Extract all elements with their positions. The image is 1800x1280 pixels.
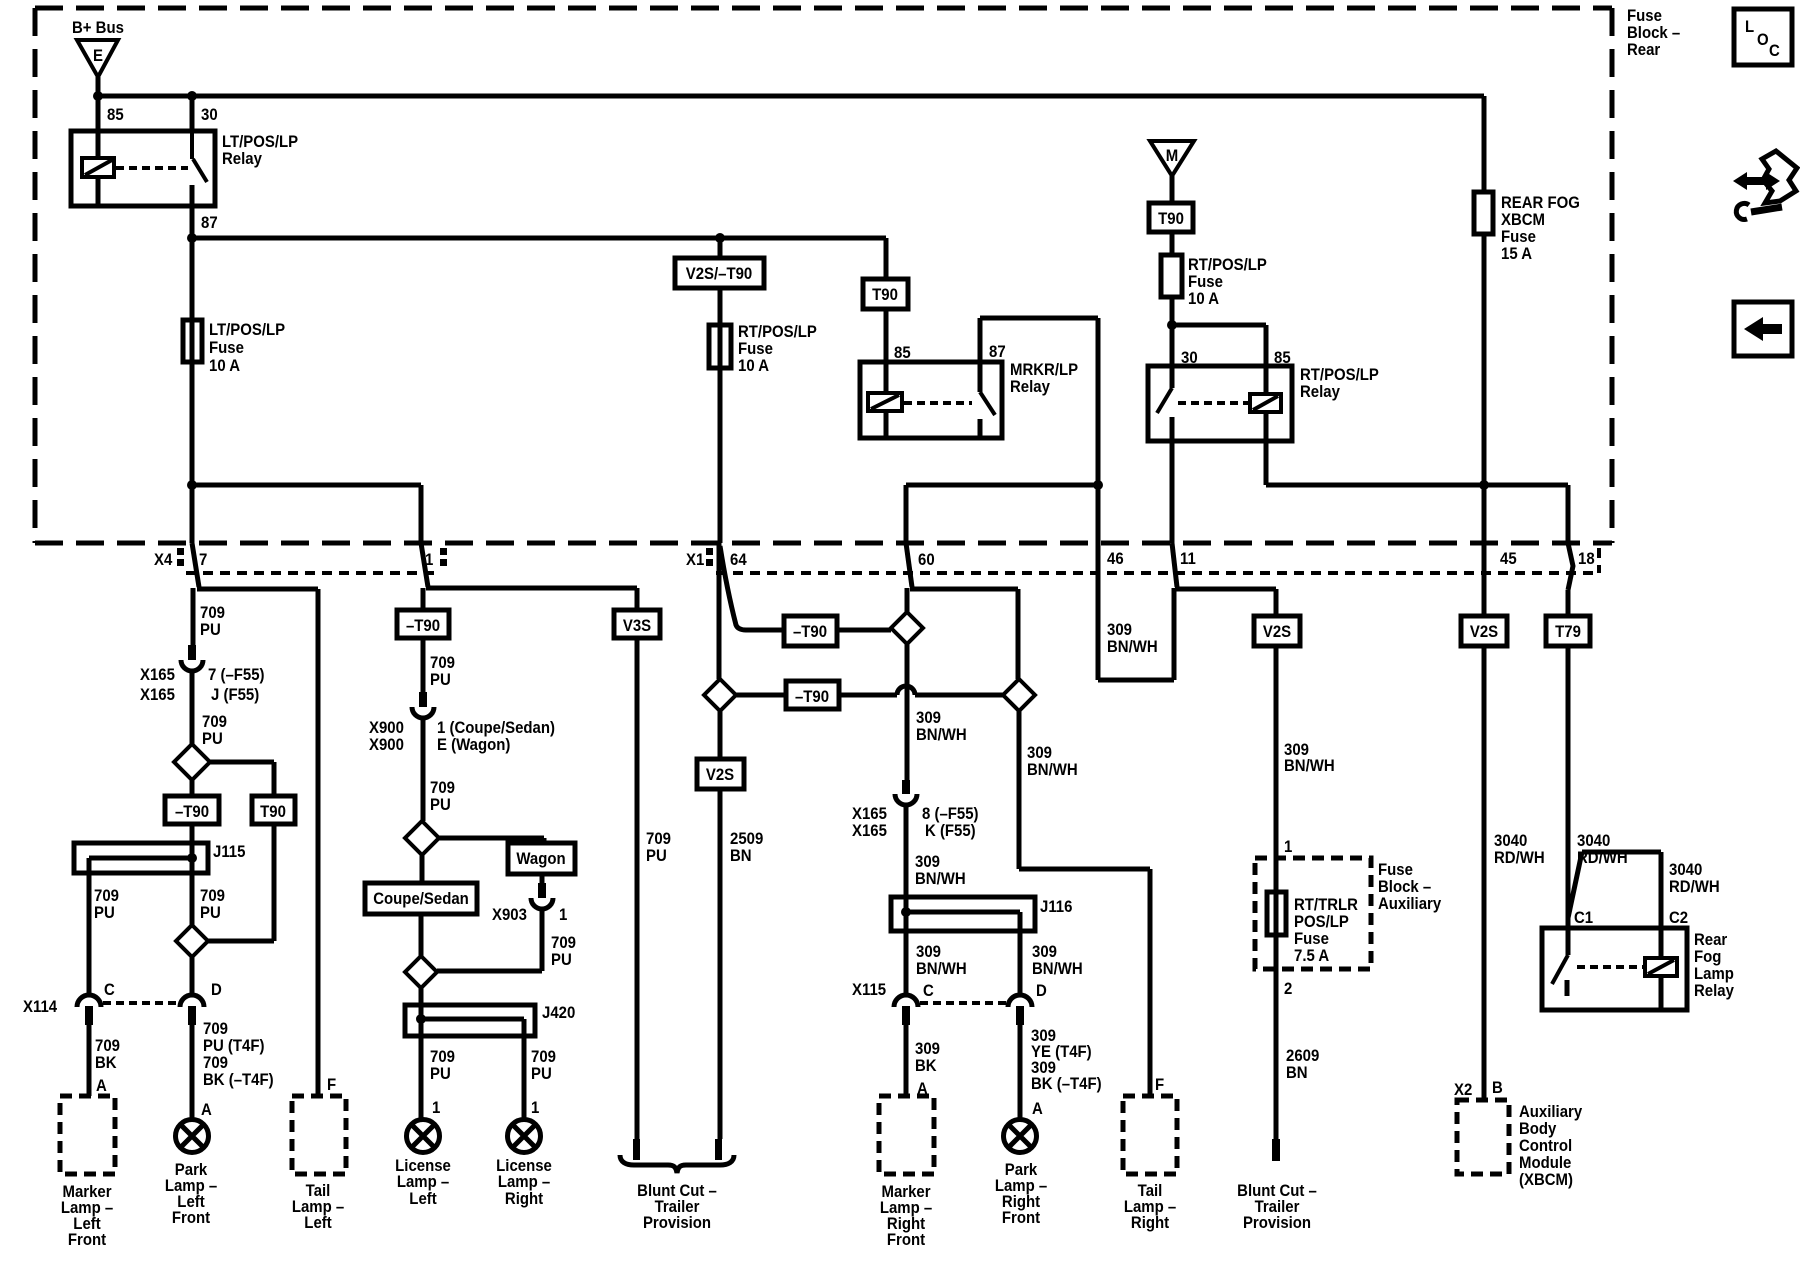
svg-text:30: 30 [201, 106, 218, 124]
svg-text:K (F55): K (F55) [925, 822, 976, 840]
svg-text:BK (–T4F): BK (–T4F) [1031, 1075, 1102, 1093]
svg-text:E (Wagon): E (Wagon) [437, 736, 510, 754]
svg-text:V2S/–T90: V2S/–T90 [686, 265, 753, 283]
svg-text:XBCM: XBCM [1501, 211, 1545, 229]
svg-text:PU: PU [94, 904, 115, 922]
svg-text:309: 309 [916, 943, 941, 961]
svg-text:Front: Front [68, 1231, 107, 1249]
svg-text:C: C [1769, 42, 1780, 60]
svg-text:309: 309 [915, 1040, 940, 1058]
svg-text:–T90: –T90 [406, 617, 440, 635]
svg-text:X2: X2 [1454, 1081, 1472, 1099]
svg-text:709: 709 [200, 604, 225, 622]
svg-text:Auxiliary: Auxiliary [1519, 1103, 1582, 1121]
svg-text:RT/POS/LP: RT/POS/LP [1300, 366, 1379, 384]
svg-text:–T90: –T90 [795, 688, 829, 706]
svg-text:B: B [1492, 1079, 1503, 1097]
svg-text:V2S: V2S [1470, 623, 1499, 641]
svg-text:Relay: Relay [1694, 982, 1734, 1000]
svg-text:Block –: Block – [1378, 878, 1431, 896]
svg-text:RT/POS/LP: RT/POS/LP [738, 323, 817, 341]
svg-text:X1: X1 [686, 551, 704, 569]
svg-text:X115: X115 [852, 981, 886, 999]
svg-text:T90: T90 [872, 286, 898, 304]
svg-text:85: 85 [107, 106, 124, 124]
svg-text:Front: Front [1002, 1209, 1041, 1227]
svg-text:POS/LP: POS/LP [1294, 913, 1349, 931]
svg-text:T90: T90 [260, 803, 286, 821]
svg-text:C: C [104, 981, 115, 999]
svg-text:10 A: 10 A [1188, 290, 1219, 308]
svg-text:7 (–F55): 7 (–F55) [208, 666, 264, 684]
svg-text:X165: X165 [852, 822, 887, 840]
svg-text:BK: BK [95, 1054, 117, 1072]
svg-text:BN/WH: BN/WH [916, 726, 967, 744]
svg-text:Front: Front [887, 1231, 926, 1249]
svg-text:J (F55): J (F55) [211, 686, 259, 704]
svg-text:709: 709 [531, 1048, 556, 1066]
svg-text:A: A [917, 1080, 928, 1098]
svg-text:Module: Module [1519, 1154, 1571, 1172]
svg-text:O: O [1757, 31, 1769, 49]
svg-text:A: A [201, 1101, 212, 1119]
svg-text:X4: X4 [154, 551, 172, 569]
svg-text:10 A: 10 A [738, 357, 769, 375]
svg-text:J116: J116 [1040, 898, 1073, 916]
svg-text:X165: X165 [140, 666, 175, 684]
svg-text:X903: X903 [492, 906, 527, 924]
svg-text:PU: PU [202, 730, 223, 748]
svg-text:Body: Body [1519, 1120, 1556, 1138]
svg-text:Provision: Provision [1243, 1214, 1311, 1232]
svg-text:Rear: Rear [1694, 931, 1727, 949]
svg-text:BN/WH: BN/WH [1107, 638, 1158, 656]
svg-text:709: 709 [430, 779, 455, 797]
svg-text:Relay: Relay [1010, 378, 1050, 396]
svg-text:V2S: V2S [706, 766, 735, 784]
svg-text:87: 87 [989, 343, 1006, 361]
svg-text:3040: 3040 [1577, 832, 1610, 850]
svg-text:RD/WH: RD/WH [1577, 849, 1628, 867]
svg-text:46: 46 [1107, 550, 1124, 568]
svg-text:309: 309 [1027, 744, 1052, 762]
svg-text:309: 309 [916, 709, 941, 727]
svg-text:Fuse: Fuse [738, 340, 773, 358]
svg-text:Coupe/Sedan: Coupe/Sedan [373, 890, 469, 908]
svg-text:C2: C2 [1669, 909, 1688, 927]
svg-text:64: 64 [730, 551, 747, 569]
svg-text:Block –: Block – [1627, 24, 1680, 42]
svg-text:Left: Left [304, 1214, 332, 1232]
svg-text:T79: T79 [1555, 623, 1581, 641]
svg-text:X900: X900 [369, 719, 404, 737]
svg-text:7.5 A: 7.5 A [1294, 947, 1330, 965]
svg-text:B+ Bus: B+ Bus [72, 19, 124, 37]
svg-text:709: 709 [551, 934, 576, 952]
svg-text:LT/POS/LP: LT/POS/LP [209, 321, 285, 339]
svg-text:1: 1 [559, 906, 567, 924]
svg-text:8 (–F55): 8 (–F55) [922, 805, 978, 823]
svg-text:Control: Control [1519, 1137, 1572, 1155]
svg-text:X165: X165 [140, 686, 175, 704]
svg-text:M: M [1166, 147, 1178, 165]
svg-text:PU: PU [646, 847, 667, 865]
svg-text:309: 309 [1107, 621, 1132, 639]
svg-text:MRKR/LP: MRKR/LP [1010, 361, 1078, 379]
svg-text:LT/POS/LP: LT/POS/LP [222, 133, 298, 151]
svg-text:Lamp –: Lamp – [498, 1173, 550, 1191]
svg-text:A: A [96, 1077, 107, 1095]
svg-text:45: 45 [1500, 550, 1517, 568]
svg-text:Relay: Relay [222, 150, 262, 168]
svg-text:PU: PU [200, 904, 221, 922]
svg-text:F: F [327, 1076, 336, 1094]
svg-text:10 A: 10 A [209, 357, 240, 375]
svg-text:Fuse: Fuse [1294, 930, 1329, 948]
svg-text:709: 709 [430, 654, 455, 672]
svg-text:Right: Right [1131, 1214, 1170, 1232]
svg-text:309: 309 [915, 853, 940, 871]
svg-text:D: D [211, 981, 222, 999]
svg-text:J115: J115 [213, 843, 246, 861]
svg-text:E: E [93, 47, 103, 65]
svg-text:X165: X165 [852, 805, 887, 823]
svg-text:Rear: Rear [1627, 41, 1660, 59]
svg-text:–T90: –T90 [175, 803, 209, 821]
svg-text:V3S: V3S [623, 617, 652, 635]
svg-text:2: 2 [1284, 980, 1292, 998]
svg-text:Fuse: Fuse [1627, 7, 1662, 25]
svg-text:BN: BN [1286, 1064, 1308, 1082]
svg-text:1 (Coupe/Sedan): 1 (Coupe/Sedan) [437, 719, 555, 737]
svg-text:PU: PU [430, 671, 451, 689]
svg-text:X900: X900 [369, 736, 404, 754]
svg-text:J420: J420 [542, 1004, 575, 1022]
svg-text:V2S: V2S [1263, 623, 1292, 641]
svg-text:PU: PU [430, 1065, 451, 1083]
svg-text:Fuse: Fuse [1188, 273, 1223, 291]
svg-text:F: F [1155, 1076, 1164, 1094]
svg-text:BN: BN [730, 847, 752, 865]
svg-text:709: 709 [203, 1020, 228, 1038]
svg-text:709: 709 [95, 1037, 120, 1055]
svg-text:A: A [1032, 1100, 1043, 1118]
svg-text:3040: 3040 [1494, 832, 1527, 850]
svg-text:T90: T90 [1158, 210, 1184, 228]
svg-text:60: 60 [918, 551, 935, 569]
svg-text:Relay: Relay [1300, 383, 1340, 401]
svg-text:C1: C1 [1574, 909, 1593, 927]
svg-text:C: C [923, 982, 934, 1000]
svg-text:PU (T4F): PU (T4F) [203, 1037, 264, 1055]
svg-text:309: 309 [1032, 943, 1057, 961]
svg-text:709: 709 [646, 830, 671, 848]
svg-text:BK: BK [915, 1057, 937, 1075]
svg-text:709: 709 [94, 887, 119, 905]
svg-text:87: 87 [201, 214, 218, 232]
svg-text:1: 1 [432, 1099, 440, 1117]
svg-text:1: 1 [531, 1099, 539, 1117]
svg-text:PU: PU [200, 621, 221, 639]
svg-text:709: 709 [202, 713, 227, 731]
svg-text:7: 7 [199, 551, 207, 569]
svg-text:Provision: Provision [643, 1214, 711, 1232]
svg-text:30: 30 [1181, 349, 1198, 367]
svg-text:D: D [1036, 982, 1047, 1000]
svg-text:Fog: Fog [1694, 948, 1721, 966]
svg-text:709: 709 [203, 1054, 228, 1072]
svg-text:BN/WH: BN/WH [916, 960, 967, 978]
svg-text:709: 709 [430, 1048, 455, 1066]
svg-text:1: 1 [425, 551, 433, 569]
svg-text:L: L [1745, 18, 1754, 36]
svg-text:PU: PU [531, 1065, 552, 1083]
svg-text:709: 709 [200, 887, 225, 905]
svg-text:RD/WH: RD/WH [1669, 878, 1720, 896]
svg-text:Fuse: Fuse [1378, 861, 1413, 879]
svg-text:BN/WH: BN/WH [1284, 757, 1335, 775]
svg-text:Left: Left [409, 1190, 437, 1208]
svg-text:Wagon: Wagon [516, 850, 565, 868]
svg-text:3040: 3040 [1669, 861, 1702, 879]
svg-text:(XBCM): (XBCM) [1519, 1171, 1573, 1189]
svg-text:RD/WH: RD/WH [1494, 849, 1545, 867]
svg-text:PU: PU [430, 796, 451, 814]
svg-text:Fuse: Fuse [209, 339, 244, 357]
svg-text:BN/WH: BN/WH [1032, 960, 1083, 978]
svg-text:18: 18 [1578, 550, 1595, 568]
svg-text:BN/WH: BN/WH [915, 870, 966, 888]
svg-text:11: 11 [1180, 550, 1196, 568]
svg-text:PU: PU [551, 951, 572, 969]
svg-text:–T90: –T90 [793, 623, 827, 641]
svg-text:2509: 2509 [730, 830, 763, 848]
svg-text:85: 85 [1274, 349, 1291, 367]
svg-text:Right: Right [505, 1190, 544, 1208]
svg-text:15 A: 15 A [1501, 245, 1532, 263]
svg-text:X114: X114 [23, 998, 57, 1016]
svg-text:Front: Front [172, 1209, 211, 1227]
svg-text:RT/POS/LP: RT/POS/LP [1188, 256, 1267, 274]
svg-text:BN/WH: BN/WH [1027, 761, 1078, 779]
svg-text:1: 1 [1284, 838, 1292, 856]
svg-text:Fuse: Fuse [1501, 228, 1536, 246]
svg-text:2609: 2609 [1286, 1047, 1319, 1065]
svg-text:RT/TRLR: RT/TRLR [1294, 896, 1358, 914]
svg-text:Auxiliary: Auxiliary [1378, 895, 1441, 913]
svg-text:Lamp –: Lamp – [397, 1173, 449, 1191]
svg-text:REAR FOG: REAR FOG [1501, 194, 1580, 212]
svg-text:BK (–T4F): BK (–T4F) [203, 1071, 274, 1089]
svg-text:85: 85 [894, 344, 911, 362]
svg-text:Lamp: Lamp [1694, 965, 1734, 983]
